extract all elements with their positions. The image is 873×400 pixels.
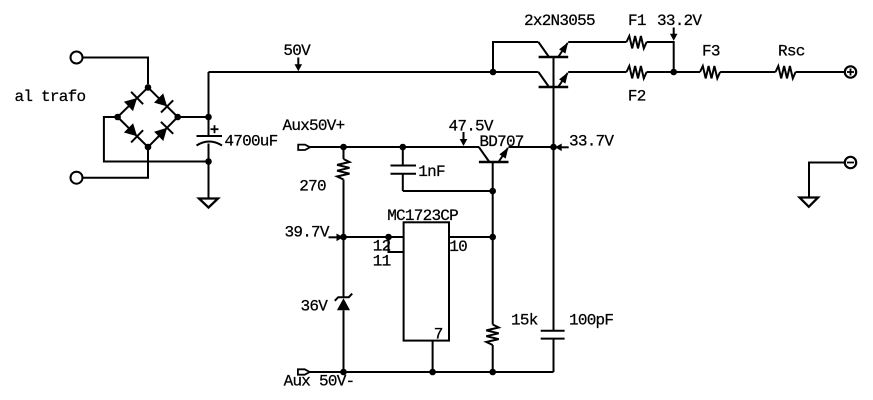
diode D2 (top node to right node) — [154, 93, 173, 112]
svg-text:Rsc: Rsc — [778, 43, 805, 61]
svg-text:Aux50V+: Aux50V+ — [283, 117, 345, 135]
node 1nF collector junction — [489, 188, 496, 195]
node bridge bottom — [145, 144, 152, 151]
wire pin 7 to bottom rail — [432, 341, 434, 372]
resistor F2 — [627, 66, 647, 78]
node bottom rail zener — [340, 369, 347, 376]
node pin 11 12 junction — [385, 234, 392, 241]
svg-text:10: 10 — [449, 238, 467, 256]
svg-text:270: 270 — [299, 178, 326, 196]
terminal output plus — [845, 66, 856, 77]
resistor 270 — [337, 147, 349, 179]
svg-text:al trafo: al trafo — [15, 88, 86, 106]
svg-text:4700uF: 4700uF — [224, 133, 277, 151]
node bridge left — [114, 114, 121, 121]
node bottom rail 15k — [489, 369, 496, 376]
node Aux rail 1nF — [400, 144, 407, 151]
capacitor 1nF — [391, 147, 417, 191]
terminal input top — [71, 52, 83, 64]
wire cap minus to ground — [208, 144, 210, 199]
svg-text:2x2N3055: 2x2N3055 — [524, 12, 595, 30]
wire 270 to zener — [343, 180, 345, 298]
diode D4 (bottom node to right node) — [154, 122, 173, 141]
svg-text:11: 11 — [373, 253, 391, 271]
arrow 33.7V pointing left — [555, 144, 569, 152]
diode D3 (left node to bottom node) — [124, 123, 143, 142]
node cap plus — [205, 114, 212, 121]
svg-text:100pF: 100pF — [569, 312, 613, 330]
wire BD707 collector line — [492, 162, 494, 325]
wire F3 to Rsc — [720, 71, 775, 73]
wire base riser to upper 2N3055 — [493, 42, 538, 72]
wire bridge left node to negative rail — [104, 117, 209, 162]
node bridge top — [145, 84, 152, 91]
resistor Rsc — [776, 66, 796, 78]
node sense 33.7V — [550, 144, 557, 151]
wire emitter Q1 to F1 — [568, 41, 626, 43]
wire bridge right node to cap top — [178, 116, 209, 118]
tag Aux 50V- — [298, 369, 310, 374]
resistor F1 — [627, 36, 647, 48]
node base junction 2N3055 — [490, 69, 497, 76]
wire riser cap top to 50V rail — [208, 72, 210, 136]
arrow 47.5V pointing down — [460, 132, 468, 146]
svg-text:7: 7 — [434, 326, 443, 344]
capacitor C1 4700uF — [197, 125, 223, 145]
resistor 15k — [486, 325, 498, 373]
wire bottom rail — [310, 371, 554, 373]
ground output — [800, 198, 818, 207]
arrow 39.7V pointing right — [329, 234, 344, 242]
wire pin 10 to collector line — [449, 236, 493, 238]
svg-text:BD707: BD707 — [479, 133, 523, 151]
arrow 50V pointing down to rail — [295, 58, 303, 72]
svg-text:33.7V: 33.7V — [569, 133, 614, 151]
wire zener to bottom rail — [343, 310, 345, 372]
wire minus terminal to ground — [809, 163, 845, 198]
svg-text:F2: F2 — [628, 88, 646, 106]
wire F2 to F3 — [647, 71, 700, 73]
svg-text:36V: 36V — [301, 298, 329, 316]
svg-text:33.2V: 33.2V — [657, 12, 702, 30]
node F1 F2 junction — [670, 69, 677, 76]
svg-text:50V: 50V — [283, 42, 311, 60]
ground main — [199, 199, 218, 208]
node 39.7V junction — [340, 234, 347, 241]
svg-text:15k: 15k — [511, 312, 538, 330]
svg-text:39.7V: 39.7V — [285, 224, 330, 242]
wire Aux rail — [310, 146, 479, 148]
wire pin 12 from 39.7V node — [344, 236, 404, 238]
IC U1 MC1723CP body — [404, 222, 449, 340]
terminal output minus — [845, 157, 856, 168]
node bottom rail pin7 — [429, 369, 436, 376]
node cap minus — [205, 158, 212, 165]
wire Rsc to plus terminal — [796, 71, 845, 73]
capacitor 100pF — [541, 331, 565, 372]
zener diode 36V — [335, 294, 352, 311]
wire BD707 emitter to sense line — [509, 146, 554, 148]
svg-text:F3: F3 — [702, 43, 720, 61]
wire collector sense line — [553, 57, 555, 331]
transistor Q2 2N3055 lower — [538, 72, 568, 87]
diode D1 (left node to top node) — [124, 92, 143, 111]
node bridge right — [174, 114, 181, 121]
svg-text:F1: F1 — [628, 12, 646, 30]
svg-text:1nF: 1nF — [418, 163, 445, 181]
wire bottom terminal to bridge bottom — [83, 150, 149, 178]
transistor Q3 BD707 — [479, 147, 509, 162]
resistor F3 — [700, 66, 720, 78]
tag Aux50V+ — [298, 145, 310, 150]
wire 50V rail — [209, 71, 539, 73]
terminal input bottom — [71, 172, 83, 184]
node Aux rail 270 — [340, 144, 347, 151]
wire F1 to junction — [647, 42, 674, 72]
node pin 10 junction — [489, 234, 496, 241]
arrow 33.2V pointing down — [670, 28, 678, 41]
wire top terminal to bridge top — [83, 58, 149, 85]
bridge rectifier diamond — [118, 87, 178, 147]
wire pin 11 stub — [389, 237, 404, 252]
transistor Q1 2N3055 upper — [538, 42, 568, 57]
wire 1nF bottom to collector line — [403, 190, 493, 192]
wire emitter Q2 to F2 — [568, 71, 626, 73]
